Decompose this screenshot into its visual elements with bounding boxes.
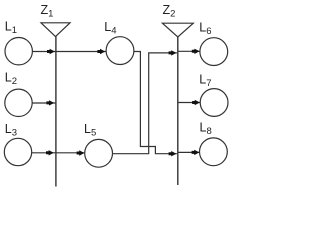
arrowhead into Z1 bus row2	[46, 100, 54, 105]
arrowhead into L7	[192, 100, 200, 105]
bus wire Z1 vertical	[55, 37, 57, 187]
arrowhead into Z2 bus row1	[169, 50, 177, 55]
wire L3 to L5	[32, 152, 85, 154]
node L3	[4, 138, 31, 165]
arrowhead on L3 wire at Z1 bus	[46, 150, 54, 155]
node L6	[200, 38, 228, 66]
antenna Z2 triangle	[162, 23, 193, 37]
wire L1 to L4	[32, 51, 105, 53]
node L8	[200, 138, 228, 166]
arrowhead on L1 wire at Z1 bus	[47, 49, 55, 54]
arrowhead into L8	[192, 150, 200, 155]
wire Z2 bus to L8	[178, 151, 200, 153]
wire Z2 bus to L7	[178, 102, 200, 104]
wire L4 right drop to row3 with jog	[134, 52, 177, 154]
node L4	[106, 37, 134, 65]
wire Z2 bus to L6	[178, 50, 200, 52]
bus wire Z2 vertical	[177, 37, 179, 185]
node L5	[85, 139, 113, 167]
wire L5 riser to Z2 bus row1	[113, 53, 177, 154]
arrowhead into Z2 bus row3	[169, 151, 177, 156]
node L1	[5, 38, 32, 65]
wire L2 to Z1 bus	[32, 102, 55, 104]
arrowhead into L4	[97, 49, 105, 54]
antenna Z1 triangle	[41, 23, 70, 37]
node L7	[200, 89, 228, 117]
node L2	[5, 89, 32, 116]
arrowhead into L6	[192, 49, 200, 54]
arrowhead into L5	[77, 150, 85, 155]
